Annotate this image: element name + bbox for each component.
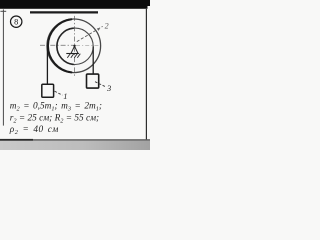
svg-text:r2 = 25 см; R2 = 55 см;: r2 = 25 см; R2 = 55 см;: [10, 113, 99, 124]
svg-text:1: 1: [63, 91, 67, 101]
svg-text:3: 3: [106, 83, 111, 93]
svg-text:2: 2: [105, 21, 109, 30]
svg-text:8: 8: [14, 18, 18, 27]
svg-text:m2 = 0,5m1; m3 = 2m1;: m2 = 0,5m1; m3 = 2m1;: [10, 101, 102, 112]
